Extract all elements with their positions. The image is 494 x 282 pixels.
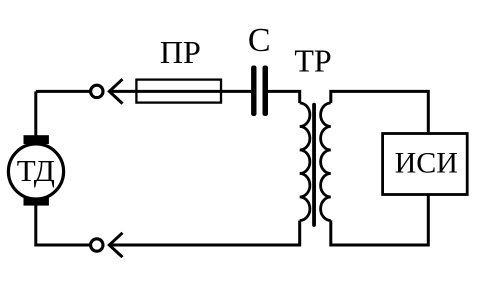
transformer primary winding xyxy=(300,103,310,221)
wire bottom-left xyxy=(36,205,91,245)
svg-text:ИСИ: ИСИ xyxy=(395,147,458,180)
wire capacitor to transformer primary top xyxy=(268,91,300,103)
wire arrow to capacitor through fuse xyxy=(109,90,251,93)
svg-text:ТД: ТД xyxy=(17,153,55,188)
transformer secondary winding xyxy=(321,103,331,221)
connector socket upper (circle) xyxy=(91,85,103,97)
capacitor C plate left xyxy=(251,66,256,117)
svg-text:ПР: ПР xyxy=(160,34,201,70)
motor brush top xyxy=(24,135,49,144)
transformer core xyxy=(312,105,316,225)
motor brush bottom xyxy=(24,197,49,205)
connector socket lower (circle) xyxy=(91,239,103,251)
svg-text:ТР: ТР xyxy=(294,43,331,79)
motor ТД circle xyxy=(8,144,63,199)
wire top-left horizontal xyxy=(36,90,91,93)
connector pin arrow upper xyxy=(109,79,122,103)
wire primary bottom to lower arrow xyxy=(109,221,299,246)
wire ISI box bottom to secondary bottom xyxy=(331,195,429,246)
connector pin arrow lower xyxy=(109,233,122,257)
wire secondary top to ISI box top xyxy=(331,91,429,132)
fuse ПР (rectangle) xyxy=(136,80,221,103)
wire top-left vertical xyxy=(34,91,37,135)
svg-text:С: С xyxy=(248,22,271,59)
box ИСИ xyxy=(383,134,468,195)
capacitor C plate right xyxy=(263,66,269,117)
